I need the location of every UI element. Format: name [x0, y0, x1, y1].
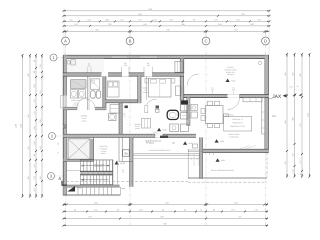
svg-text:546: 546	[165, 202, 168, 205]
walkable terrace bottom dashed line	[66, 180, 188, 182]
level mark stairs	[115, 161, 119, 165]
svg-text:370: 370	[88, 216, 91, 219]
svg-text:160: 160	[33, 126, 36, 129]
svg-text:1139: 1139	[148, 8, 152, 11]
svg-text:760: 760	[166, 29, 169, 32]
bottom dim row 2	[64, 211, 269, 213]
svg-text:90: 90	[33, 60, 36, 62]
corridor bottom double line	[133, 153, 200, 155]
bottom dim row 3	[64, 218, 269, 220]
tall kitchen units right	[262, 98, 265, 134]
svg-text:108: 108	[292, 169, 295, 172]
svg-text:150: 150	[87, 18, 90, 21]
interior wall V4	[119, 100, 122, 134]
living room bottom wall	[203, 149, 269, 152]
svg-text:650: 650	[95, 29, 98, 32]
double ticks grid crossings top	[63, 30, 65, 32]
svg-text:PROSTOR 17: PROSTOR 17	[232, 122, 243, 125]
svg-text:240: 240	[88, 65, 91, 68]
wall H_B	[63, 73, 184, 76]
interior wall H3	[63, 134, 196, 137]
svg-text:D: D	[264, 39, 267, 44]
dash outside balcony	[122, 188, 126, 190]
shelf box 1	[181, 105, 189, 111]
svg-text:488: 488	[292, 117, 295, 120]
svg-text:365: 365	[39, 176, 42, 179]
svg-text:248: 248	[143, 23, 146, 26]
svg-text:142: 142	[254, 209, 257, 212]
terrace level mark	[226, 79, 230, 82]
right dim col 4	[309, 54, 311, 177]
grid bubble C	[202, 37, 210, 45]
svg-text:260: 260	[250, 23, 253, 26]
svg-text:C: C	[204, 39, 207, 44]
svg-text:172: 172	[299, 160, 302, 163]
window W2 top wall	[140, 56, 157, 58]
svg-text:88: 88	[213, 209, 215, 212]
nightstand left	[145, 79, 148, 84]
svg-text:+4,56: +4,56	[162, 129, 167, 132]
svg-text:240: 240	[169, 18, 172, 21]
kitchen lower fixtures	[170, 124, 179, 132]
svg-text:401: 401	[284, 72, 287, 75]
interior wall V3	[180, 59, 184, 101]
shaft bottom wall	[63, 159, 93, 161]
svg-text:270: 270	[214, 18, 217, 21]
bed bedroom2	[149, 79, 172, 98]
svg-text:427: 427	[238, 216, 241, 219]
svg-text:240: 240	[218, 23, 221, 26]
kitchen nook fixtures	[191, 105, 198, 111]
door lintel dark block	[160, 136, 168, 138]
bottom dim row 1	[64, 204, 269, 206]
dining table	[206, 106, 224, 124]
top dimension row 1 overall	[64, 10, 270, 12]
dark utility block	[181, 100, 189, 104]
svg-text:241: 241	[27, 146, 30, 149]
grid bubble row 2	[49, 133, 56, 140]
stair walk line with arrow	[82, 165, 109, 167]
tall cabinet	[176, 86, 182, 96]
svg-text:240: 240	[211, 88, 214, 91]
svg-text:parket: parket	[82, 119, 87, 122]
svg-text:330: 330	[108, 23, 111, 26]
terrace door opening + swing	[228, 94, 240, 98]
left dim col outer	[22, 55, 24, 197]
svg-text:131: 131	[33, 111, 36, 114]
svg-text:12: 12	[200, 209, 202, 212]
ticks below wall	[209, 152, 211, 155]
left arrow after JAX	[283, 94, 287, 97]
svg-text:90: 90	[193, 18, 195, 21]
svg-text:241: 241	[39, 146, 42, 149]
toilet pair	[91, 91, 96, 98]
svg-text:102: 102	[257, 18, 260, 21]
svg-text:220: 220	[292, 153, 295, 156]
washbasin pair	[70, 90, 77, 98]
nightstand right	[171, 79, 175, 84]
svg-text:241: 241	[94, 209, 97, 212]
interior wall V5	[138, 76, 141, 103]
svg-text:m2 beton: m2 beton	[227, 73, 234, 76]
top dimension row 4	[64, 25, 270, 27]
strip floor tint	[67, 59, 104, 73]
top exterior wall	[63, 55, 269, 58]
svg-text:1180: 1180	[20, 124, 23, 128]
interior wall H4	[63, 107, 77, 110]
kitchen counter top	[243, 98, 262, 102]
section arrow at balcony	[68, 186, 76, 192]
flat roof region boundary	[187, 153, 189, 179]
svg-text:94: 94	[184, 209, 186, 212]
right dim col 1	[286, 54, 288, 177]
terrace-room door swing	[184, 74, 187, 86]
svg-text:90: 90	[74, 209, 76, 212]
svg-text:288: 288	[105, 18, 108, 21]
svg-text:255: 255	[284, 161, 287, 164]
svg-text:8 15: 8 15	[289, 86, 292, 89]
thin partition line	[145, 76, 147, 100]
svg-text:192: 192	[74, 23, 77, 26]
stair mid landing rail	[80, 171, 113, 175]
dresser below H4b	[110, 105, 120, 114]
drain circle	[67, 61, 71, 65]
svg-text:121: 121	[69, 18, 72, 21]
svg-text:RAVNA NEPROHODNA KROV: RAVNA NEPROHODNA KROV	[211, 169, 235, 172]
svg-text:401: 401	[292, 72, 295, 75]
svg-text:+4,41: +4,41	[221, 159, 226, 162]
shower tray gray	[71, 80, 87, 89]
svg-text:240: 240	[232, 88, 235, 91]
svg-text:140: 140	[120, 18, 123, 21]
svg-text:+4,56: +4,56	[120, 162, 125, 165]
interior wall V6 stair core	[130, 137, 133, 186]
left dim col 3	[35, 55, 37, 197]
svg-text:522: 522	[234, 202, 237, 205]
svg-text:240: 240	[147, 64, 150, 67]
grid bubble row 1	[50, 54, 57, 61]
svg-text:322: 322	[241, 13, 244, 16]
svg-text:PROSTOR 17 TER.: PROSTOR 17 TER.	[230, 125, 245, 128]
radiator	[142, 119, 151, 129]
level mark corridor	[157, 128, 161, 131]
double ticks grid crossings bottom	[63, 204, 65, 206]
interior wall V8	[200, 137, 203, 178]
extension lines to top dims	[63, 9, 65, 56]
right dim col 3	[301, 54, 303, 177]
svg-text:120: 120	[33, 99, 36, 102]
svg-text:1225: 1225	[307, 113, 310, 117]
svg-text:B: B	[129, 39, 132, 44]
sink marks living bottom-left	[193, 144, 198, 148]
svg-text:301: 301	[39, 90, 42, 93]
svg-text:A: A	[64, 39, 67, 44]
staircase lower flight treads	[80, 175, 82, 185]
interior wall V7	[187, 98, 190, 126]
svg-text:88: 88	[33, 154, 36, 156]
svg-text:A: A	[58, 176, 61, 181]
grid bubble row 3	[48, 173, 55, 180]
svg-text:+4,56: +4,56	[77, 187, 82, 190]
svg-text:420: 420	[27, 73, 30, 76]
bathroom partition thin	[87, 76, 89, 110]
grid bubble D	[262, 37, 270, 45]
svg-text:365: 365	[27, 176, 30, 179]
stair core bottom wall	[63, 185, 119, 187]
shaft right of stairs	[118, 137, 120, 161]
left dim col 4	[41, 55, 43, 197]
shaft right wall	[90, 139, 94, 162]
bottom dim row 4 overall	[64, 225, 269, 227]
balcony below stairs	[63, 187, 120, 195]
NE arrows	[293, 93, 297, 96]
level mark living	[215, 139, 219, 142]
jamb marks	[125, 106, 128, 109]
svg-text:655: 655	[94, 202, 97, 205]
left exterior wall	[63, 55, 66, 195]
wall stub H5	[63, 125, 66, 128]
svg-text:+4,56: +4,56	[220, 140, 225, 143]
shelf box 2	[181, 113, 189, 119]
wardrobe bedroom2	[175, 61, 183, 72]
shower 2	[90, 79, 100, 89]
svg-text:560: 560	[284, 120, 287, 123]
svg-text:270: 270	[231, 209, 234, 212]
svg-text:150: 150	[33, 141, 36, 144]
svg-text:+4,56: +4,56	[188, 142, 193, 145]
WC toilet	[109, 114, 117, 121]
light scribble living bottom	[240, 145, 250, 148]
svg-text:270: 270	[138, 18, 141, 21]
svg-text:295: 295	[39, 119, 42, 122]
svg-text:15: 15	[297, 85, 299, 88]
elevator shaft	[68, 139, 90, 159]
chairs	[208, 101, 213, 105]
level mark corridor2	[183, 141, 187, 144]
S4 box label	[123, 150, 130, 156]
svg-text:93: 93	[162, 209, 164, 212]
svg-text:570: 570	[299, 123, 302, 126]
svg-text:270: 270	[139, 209, 142, 212]
interior wall H4b	[105, 100, 141, 103]
svg-text:52: 52	[299, 173, 302, 175]
grid bubble A	[62, 37, 70, 45]
svg-text:535: 535	[160, 216, 163, 219]
landing edge left of stairs	[67, 169, 80, 171]
grid bubble B	[126, 37, 134, 45]
svg-text:240: 240	[124, 64, 127, 67]
right dim col 2	[294, 54, 296, 177]
svg-text:120: 120	[33, 164, 36, 167]
grid axis dashed lines A B C D	[65, 45, 67, 227]
svg-text:948: 948	[138, 13, 141, 16]
svg-text:_JAX: _JAX	[268, 94, 282, 100]
toilet/bidet bold	[167, 110, 178, 119]
terrace drain	[258, 61, 261, 64]
svg-text:S4: S4	[124, 152, 128, 156]
svg-text:430: 430	[299, 73, 302, 76]
svg-text:220: 220	[39, 64, 42, 67]
door arc right of H4b	[147, 99, 157, 104]
stair right rail	[112, 160, 114, 185]
svg-text:180: 180	[33, 84, 36, 87]
svg-text:388: 388	[181, 23, 184, 26]
svg-text:102: 102	[153, 18, 156, 21]
balcony railing posts	[77, 188, 79, 195]
svg-text:152: 152	[236, 18, 239, 21]
window W1 top wall	[112, 56, 127, 58]
svg-text:PP 90/210: PP 90/210	[146, 142, 154, 145]
staircase upper flight treads	[80, 159, 113, 161]
terrace parapet wall	[184, 95, 269, 98]
svg-text:88: 88	[33, 71, 36, 73]
living room label box	[224, 117, 252, 131]
window strip left of H6	[188, 149, 203, 151]
svg-text:415: 415	[27, 114, 30, 117]
window left wall	[63, 96, 66, 109]
small fixture block	[71, 60, 76, 65]
left dim col 2	[29, 55, 31, 197]
bed mid room	[108, 81, 120, 97]
svg-text:D1: D1	[273, 115, 277, 118]
balcony bottom double line	[63, 194, 120, 196]
top dimension row 2	[64, 15, 270, 17]
svg-text:597: 597	[234, 29, 237, 32]
top dimension row 3	[64, 20, 270, 22]
svg-text:113: 113	[33, 188, 36, 191]
wall stub + door swing d2	[95, 107, 106, 110]
right exterior wall	[265, 55, 269, 152]
svg-text:948: 948	[163, 223, 166, 226]
svg-text:130: 130	[33, 176, 36, 179]
bubble connectors	[65, 31, 67, 37]
section marker A symbol	[62, 181, 67, 185]
roof level mark	[216, 158, 220, 161]
svg-text:+4,53: +4,53	[231, 79, 236, 82]
svg-text:DNEVNI B. 17: DNEVNI B. 17	[232, 118, 243, 121]
door swing d1	[77, 98, 87, 108]
svg-text:20: 20	[117, 209, 119, 212]
partition V below H_B	[103, 76, 106, 110]
top dimension row 5 axis spans	[64, 30, 270, 32]
